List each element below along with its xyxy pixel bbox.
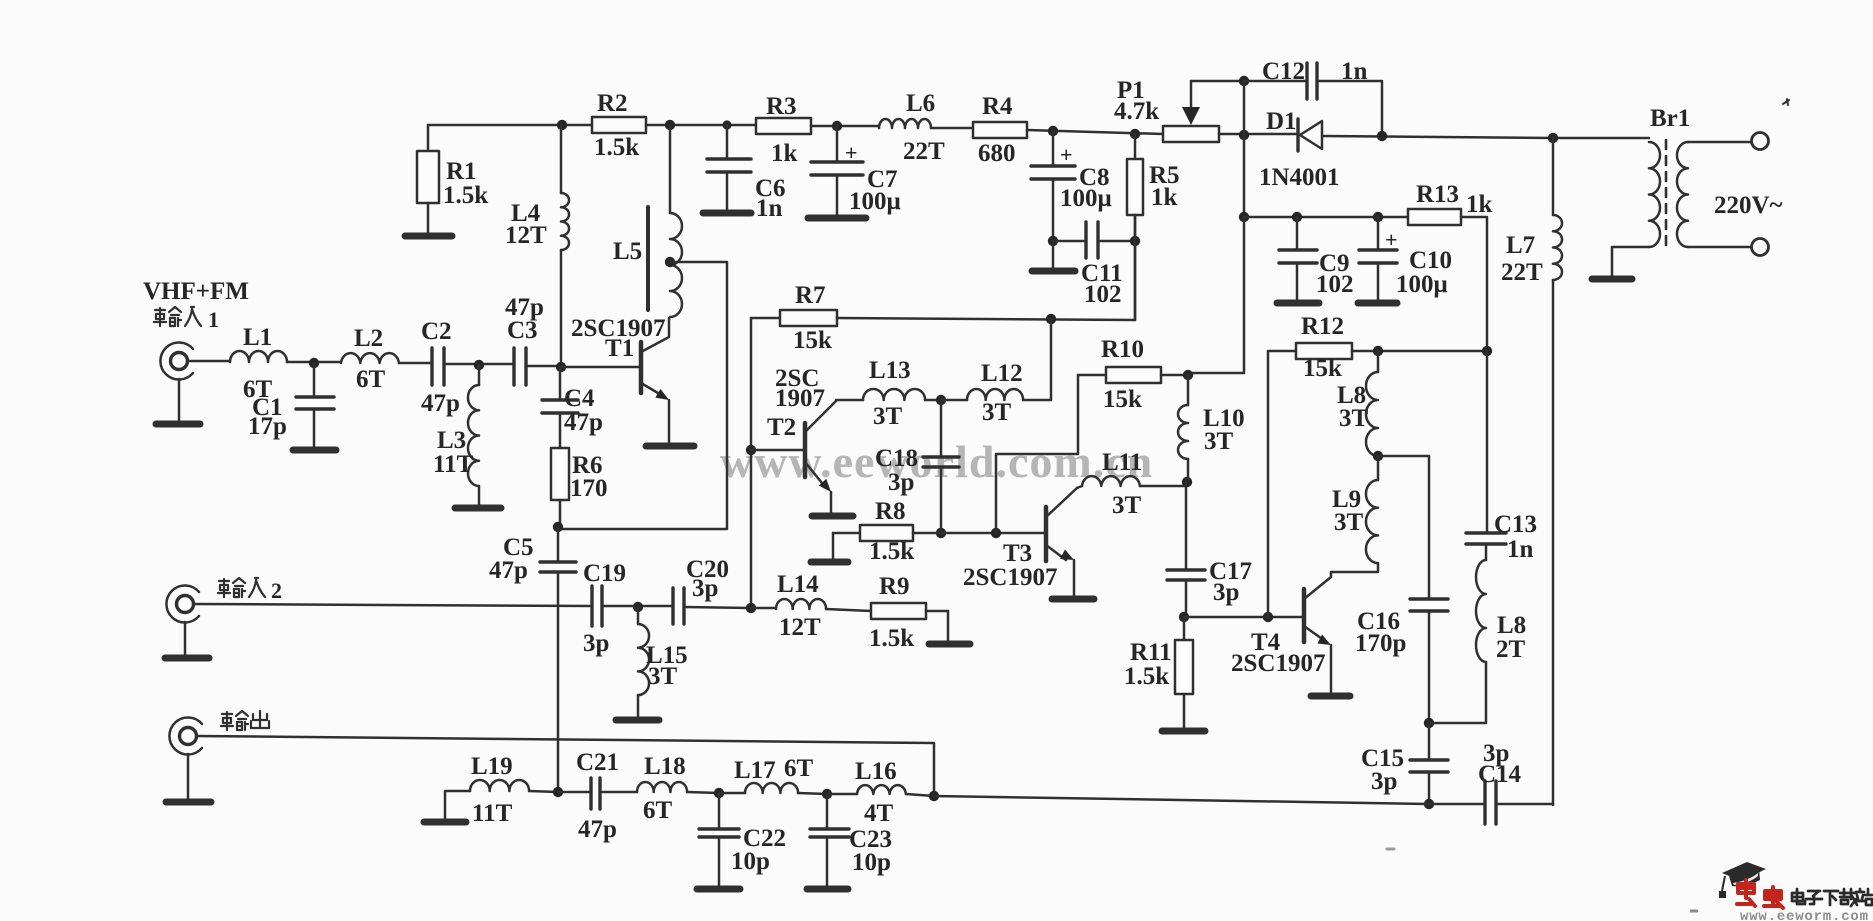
svg-text:C10: C10	[1409, 247, 1452, 274]
svg-text:3T: 3T	[1112, 492, 1142, 519]
svg-text:R11: R11	[1130, 639, 1172, 666]
svg-text:R3: R3	[766, 93, 797, 120]
resistor R5	[1127, 134, 1180, 320]
inductor L9	[1331, 456, 1378, 577]
wire P1 to D1	[1219, 133, 1298, 136]
node C22 top junction	[714, 788, 724, 798]
svg-text:3T: 3T	[873, 403, 903, 430]
capacitor C21	[558, 749, 637, 843]
ground R8 left	[811, 533, 848, 562]
svg-text:L12: L12	[981, 360, 1023, 387]
svg-text:L2: L2	[354, 325, 383, 352]
svg-text:1N4001: 1N4001	[1259, 164, 1340, 191]
resistor R9	[869, 573, 948, 652]
node T2 base junction	[746, 445, 756, 455]
ground below L3	[455, 486, 501, 508]
svg-text:3T: 3T	[982, 399, 1012, 426]
ground L19 left	[424, 791, 470, 822]
svg-text:170: 170	[570, 475, 608, 502]
resistor R3	[756, 93, 811, 167]
capacitor C3	[505, 294, 544, 385]
svg-text:VHF+FM: VHF+FM	[143, 278, 249, 305]
transistor T2 2SC1907	[767, 365, 836, 492]
node L5 tap	[665, 257, 675, 267]
wire bottom filter long run to C15	[934, 796, 1429, 804]
svg-text:R7: R7	[795, 282, 826, 309]
node C8/C11/ground junction	[1048, 236, 1058, 246]
wire R13 right down to R12 line	[1461, 217, 1487, 351]
node C15 bottom junction	[1424, 799, 1434, 809]
svg-text:L5: L5	[613, 238, 642, 265]
transistor T3 2SC1907	[963, 488, 1077, 591]
label 输入2 glyphs	[218, 578, 282, 603]
wire L2 to C2	[399, 362, 432, 365]
ground below C23	[807, 837, 848, 889]
ground below C6	[703, 172, 751, 213]
svg-text:C3: C3	[507, 317, 538, 344]
svg-text:1: 1	[208, 307, 219, 332]
node R5 top	[1130, 129, 1140, 139]
wire R7 right to R5 bottom	[837, 215, 1135, 320]
node C5/bottom filter junction	[553, 787, 563, 797]
inductor L11	[1077, 449, 1186, 519]
transformer Br1 primary winding	[1649, 105, 1690, 247]
wire D1 to Br1	[1322, 136, 1649, 138]
ground Br1 primary	[1592, 247, 1649, 279]
resistor R7	[751, 282, 837, 354]
ground below C7	[808, 175, 866, 218]
node R6/C5/L5-return junction	[553, 522, 563, 532]
wire R7 left vertical to T2 base and C20 line	[750, 318, 753, 608]
node C19/L15/C20 junction	[633, 602, 643, 612]
svg-text:L17: L17	[734, 757, 776, 784]
transistor T1 2SC1907	[571, 315, 669, 400]
capacitor C23	[810, 794, 892, 876]
svg-text:L11: L11	[1102, 449, 1142, 476]
capacitor C17	[1167, 482, 1252, 617]
wire T4 base line	[1184, 616, 1302, 619]
diode D1 1N4001	[1259, 108, 1340, 191]
inductor L8 3T	[1337, 351, 1378, 456]
svg-text:102: 102	[1084, 281, 1122, 308]
capacitor C8 electrolytic	[1031, 131, 1112, 212]
svg-text:1n: 1n	[756, 195, 783, 222]
wire connector1 to L1	[187, 360, 230, 363]
resistor R6	[551, 413, 608, 527]
svg-text:L7: L7	[1506, 232, 1535, 259]
node junction L4/top rail	[557, 120, 567, 130]
inductor L2	[341, 325, 399, 393]
svg-text:1k: 1k	[1466, 191, 1493, 218]
inductor L4	[505, 125, 569, 367]
transformer Br1 core dashed	[1665, 140, 1668, 250]
svg-text:3T: 3T	[1334, 509, 1364, 536]
svg-text:15k: 15k	[793, 327, 832, 354]
svg-text:680: 680	[978, 140, 1016, 167]
ground below connector input1	[156, 379, 200, 424]
ground below C1	[293, 409, 336, 450]
svg-text:L18: L18	[644, 753, 686, 780]
svg-text:1.5k: 1.5k	[594, 134, 639, 161]
svg-text:R12: R12	[1301, 313, 1344, 340]
resistor R8	[833, 498, 1044, 565]
capacitor C11	[1053, 222, 1135, 308]
node C18/R8 junction	[936, 528, 946, 538]
wire secondary bottom lead	[1688, 246, 1752, 249]
wire top rail left segment	[428, 124, 592, 127]
scan speck bottom left of logo	[1690, 910, 1698, 913]
connector output	[169, 718, 202, 755]
potentiometer P1	[1114, 77, 1219, 142]
wire supply branch down to R10	[1188, 217, 1244, 373]
wire wiper down to D1 line	[1243, 81, 1246, 135]
svg-text:2SC1907: 2SC1907	[1231, 650, 1325, 677]
svg-text:R9: R9	[879, 573, 910, 600]
svg-text:C21: C21	[576, 749, 619, 776]
svg-text:L19: L19	[471, 753, 513, 780]
node L16/output riser junction	[929, 791, 939, 801]
wire supply vertical to second rail	[1243, 135, 1246, 217]
label 输出 glyphs	[221, 711, 269, 730]
ground T1 emitter	[646, 400, 694, 446]
node C11/R5 junction	[1130, 236, 1140, 246]
svg-text:3T: 3T	[1204, 428, 1234, 455]
svg-text:+: +	[845, 140, 858, 165]
wire secondary top lead	[1688, 141, 1752, 144]
capacitor C22	[699, 793, 786, 875]
wire input2 line	[193, 604, 592, 606]
svg-text:47p: 47p	[489, 557, 528, 584]
svg-text:L8: L8	[1497, 612, 1526, 639]
resistor R13	[1408, 181, 1493, 225]
wire L5 tap to C5 column	[558, 262, 727, 529]
capacitor C5	[489, 527, 576, 584]
svg-text:www.eeworm.com: www.eeworm.com	[1740, 909, 1869, 921]
wire second rail	[1244, 216, 1408, 219]
node C9 top	[1292, 212, 1302, 222]
node C7 top	[832, 121, 842, 131]
node C20/L14/T2-riser junction	[746, 603, 756, 613]
node R10 right junction	[1183, 370, 1193, 380]
svg-text:2: 2	[271, 578, 282, 603]
node L10/L11/C17 junction	[1182, 477, 1192, 487]
ground below R11	[1162, 694, 1205, 731]
svg-text:C12: C12	[1262, 58, 1305, 85]
wire base node to T1	[561, 366, 639, 369]
node C3/C4/L4/base junction	[556, 362, 566, 372]
inductor L10	[1178, 375, 1245, 481]
capacitor C2	[421, 318, 460, 417]
wire L1 to L2	[287, 361, 341, 364]
ground below R1	[405, 203, 452, 236]
svg-text:R4: R4	[982, 93, 1013, 120]
svg-text:1n: 1n	[1507, 536, 1534, 563]
scan speck bottom middle	[1387, 848, 1394, 851]
svg-text:1.5k: 1.5k	[869, 538, 914, 565]
capacitor C18	[875, 400, 959, 533]
svg-text:3p: 3p	[888, 469, 914, 496]
ground below C10	[1358, 263, 1397, 303]
ground below connector input2	[165, 622, 209, 658]
ground below C22	[697, 837, 740, 889]
resistor R10	[1078, 336, 1188, 413]
svg-text:C2: C2	[421, 318, 452, 345]
svg-text:L14: L14	[777, 571, 819, 598]
wire R3 to L6	[811, 125, 879, 128]
svg-text:15k: 15k	[1103, 386, 1142, 413]
svg-text:R8: R8	[875, 498, 906, 525]
svg-text:15k: 15k	[1303, 355, 1342, 382]
wire C5 down to bottom filter	[557, 572, 560, 792]
svg-text:L6: L6	[906, 90, 935, 117]
svg-text:3p: 3p	[1371, 768, 1397, 795]
scan speck top right	[1783, 99, 1789, 105]
inductor L1	[230, 324, 287, 403]
ground below L15	[616, 695, 659, 720]
svg-text:C19: C19	[583, 560, 626, 587]
svg-text:4.7k: 4.7k	[1114, 98, 1159, 125]
node R13/R12/C13 junction	[1482, 346, 1492, 356]
svg-text:22T: 22T	[1501, 259, 1543, 286]
resistor R1	[417, 125, 488, 209]
node wiper/C12 junction	[1239, 76, 1249, 86]
ground T2 emitter	[812, 492, 853, 516]
svg-text:3T: 3T	[648, 663, 678, 690]
svg-text:+: +	[1060, 142, 1073, 167]
svg-text:C13: C13	[1494, 511, 1537, 538]
inductor L15	[638, 607, 688, 695]
svg-text:6T: 6T	[356, 366, 386, 393]
inductor L8 2T	[1429, 544, 1526, 723]
svg-text:T1: T1	[605, 335, 634, 362]
svg-text:100μ: 100μ	[1060, 185, 1112, 212]
node L8 top junction	[1373, 346, 1383, 356]
wire L8 bottom to C16	[1378, 456, 1429, 599]
svg-text:www.eeworld.com.cn: www.eeworld.com.cn	[720, 436, 1153, 487]
ground below connector output	[166, 754, 211, 802]
inductor L16	[827, 758, 934, 827]
node R8/R10-link junction	[991, 528, 1001, 538]
capacitor C9	[1279, 217, 1354, 298]
capacitor C15	[1361, 723, 1448, 804]
capacitor C12	[1244, 58, 1382, 136]
svg-text:R1: R1	[446, 158, 477, 185]
transistor T4 2SC1907	[1231, 577, 1331, 677]
label 输入1 glyphs	[154, 307, 219, 332]
svg-text:L13: L13	[869, 357, 911, 384]
node R12-left/T4-base junction	[1263, 612, 1273, 622]
connector input1	[143, 278, 249, 380]
svg-text:100μ: 100μ	[849, 188, 901, 215]
inductor L5 with core bar and tap	[613, 125, 682, 317]
capacitor C1	[248, 363, 334, 440]
svg-text:1907: 1907	[775, 385, 825, 412]
wire T2 base	[751, 449, 803, 452]
wire P1 wiper to C12	[1191, 80, 1244, 83]
wire C15 node to C14	[1429, 803, 1485, 806]
node C10 top	[1373, 212, 1383, 222]
svg-text:1.5k: 1.5k	[443, 182, 488, 209]
wire L6 to R4	[931, 127, 973, 130]
wire top rail R2 to R3	[646, 124, 756, 127]
svg-text:+: +	[1385, 227, 1398, 252]
svg-text:4T: 4T	[864, 800, 894, 827]
ground below C9	[1277, 263, 1319, 303]
capacitor C16	[1355, 599, 1448, 723]
svg-text:6T: 6T	[784, 755, 814, 782]
svg-text:3p: 3p	[583, 630, 609, 657]
svg-text:6T: 6T	[643, 797, 673, 824]
svg-text:L1: L1	[243, 324, 272, 351]
svg-text:1.5k: 1.5k	[869, 625, 914, 652]
svg-text:47p: 47p	[564, 409, 603, 436]
inductor L12	[941, 319, 1051, 426]
node C1 top	[309, 358, 319, 368]
capacitor C10 electrolytic	[1359, 217, 1452, 298]
logo graduation cap	[1719, 862, 1766, 898]
resistor R4	[973, 93, 1027, 167]
svg-text:2T: 2T	[1496, 636, 1526, 663]
logo 电子下载站 glyphs	[1792, 889, 1872, 906]
node L5 top	[665, 120, 675, 130]
inductor L3	[433, 365, 479, 486]
svg-text:12T: 12T	[779, 614, 821, 641]
inductor L19	[470, 753, 558, 827]
svg-text:1k: 1k	[1151, 184, 1178, 211]
svg-text:R2: R2	[597, 90, 628, 117]
inductor L14	[751, 571, 871, 641]
ground R9 right	[929, 611, 970, 644]
svg-text:220V~: 220V~	[1714, 192, 1783, 219]
ground T4 emitter	[1311, 645, 1350, 696]
terminal circle bottom 220V	[1752, 239, 1769, 256]
wire output line	[196, 736, 934, 796]
svg-text:T3: T3	[1003, 540, 1032, 567]
svg-text:11T: 11T	[433, 451, 474, 478]
svg-text:170p: 170p	[1355, 630, 1406, 657]
capacitor C13	[1466, 351, 1537, 563]
svg-text:T2: T2	[767, 414, 796, 441]
node L8/L9/C16 junction	[1373, 451, 1383, 461]
wire R4 to P1	[1027, 130, 1163, 134]
inductor L17	[719, 755, 827, 794]
resistor R2	[592, 90, 646, 161]
svg-text:100μ: 100μ	[1396, 271, 1448, 298]
svg-text:22T: 22T	[903, 138, 945, 165]
svg-text:47p: 47p	[421, 390, 460, 417]
node C8 top	[1048, 126, 1058, 136]
capacitor C20	[673, 556, 751, 624]
capacitor C6	[707, 125, 786, 222]
svg-text:C14: C14	[1478, 761, 1522, 788]
wire C3 to base node	[526, 365, 561, 368]
capacitor C7 electrolytic	[811, 126, 901, 215]
capacitor C14	[1478, 740, 1553, 824]
svg-text:11T: 11T	[472, 800, 513, 827]
connector input2	[166, 586, 199, 623]
svg-text:C18: C18	[875, 445, 918, 472]
ground below C8 node	[1032, 241, 1075, 271]
svg-text:R10: R10	[1101, 336, 1144, 363]
svg-text:2SC1907: 2SC1907	[963, 564, 1057, 591]
svg-text:10p: 10p	[731, 848, 770, 875]
node C12 right junction	[1377, 131, 1387, 141]
node C6 top	[722, 120, 731, 129]
logo 虫虫 red glyphs	[1737, 880, 1783, 908]
node L13/L12/C18 junction	[936, 395, 946, 405]
capacitor C4	[542, 367, 603, 436]
svg-text:1.5k: 1.5k	[1124, 663, 1169, 690]
wire C8 bottom node	[1052, 179, 1055, 241]
svg-text:R13: R13	[1416, 181, 1459, 208]
svg-text:L3: L3	[437, 427, 466, 454]
node L7 top junction	[1548, 133, 1558, 143]
resistor R12	[1268, 313, 1487, 617]
node C17/R11/T4-base junction	[1179, 612, 1189, 622]
node C23 top junction	[822, 789, 832, 799]
svg-text:1k: 1k	[771, 140, 798, 167]
svg-text:Br1: Br1	[1650, 105, 1690, 132]
node C16/C15/L8-2T junction	[1424, 718, 1434, 728]
node P1/D1/supply junction	[1239, 130, 1249, 140]
inductor L7	[1501, 138, 1562, 805]
svg-text:17p: 17p	[248, 413, 287, 440]
wire R10 left link to T3 base line	[996, 375, 1078, 533]
svg-text:12T: 12T	[505, 222, 547, 249]
svg-text:102: 102	[1316, 271, 1354, 298]
svg-text:3T: 3T	[1339, 405, 1369, 432]
wire C2 to C3	[444, 363, 514, 366]
terminal circle top 220V	[1752, 133, 1769, 150]
transformer Br1 secondary winding	[1677, 142, 1783, 247]
inductor L18	[637, 753, 719, 824]
ground T3 emitter	[1052, 560, 1094, 599]
inductor L13	[836, 357, 941, 430]
svg-text:L16: L16	[855, 758, 897, 785]
svg-text:3p: 3p	[1213, 579, 1239, 606]
svg-text:D1: D1	[1266, 108, 1297, 135]
svg-text:3p: 3p	[692, 575, 718, 602]
svg-text:1n: 1n	[1341, 58, 1368, 85]
resistor R11	[1124, 617, 1193, 694]
node L12 riser junction	[1046, 314, 1056, 324]
capacitor C19	[583, 560, 673, 657]
svg-text:47p: 47p	[578, 816, 617, 843]
node second rail left	[1239, 212, 1249, 222]
svg-text:10p: 10p	[852, 849, 891, 876]
node L3 top	[474, 360, 484, 370]
svg-text:C4: C4	[564, 385, 595, 412]
inductor L6	[879, 90, 945, 165]
